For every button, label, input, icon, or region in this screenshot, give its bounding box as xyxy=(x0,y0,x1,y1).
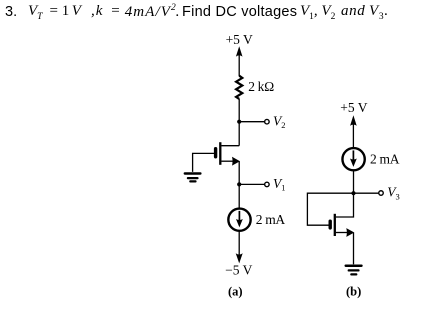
current source I1 2 mA xyxy=(228,209,250,231)
terminal V1 open circle xyxy=(265,182,270,187)
svg-text:V1: V1 xyxy=(273,176,286,193)
transistor Q2 drain lead xyxy=(336,193,354,217)
node V1 junction dot xyxy=(237,182,241,186)
svg-text:−5 V: −5 V xyxy=(225,262,252,277)
current source I2 2 mA xyxy=(342,148,364,170)
wire feedback loop node V3 to Q2 gate xyxy=(307,193,353,225)
wire Q1 gate to ground xyxy=(193,153,214,172)
wire node V2 to terminal xyxy=(239,121,264,123)
node V2 junction dot xyxy=(237,120,241,124)
transistor Q1 source lead with arrow xyxy=(221,157,240,166)
wire current source to -5V arrow xyxy=(238,231,240,255)
transistor Q2 source lead with arrow xyxy=(336,228,354,237)
+5V supply arrow (a) xyxy=(236,46,243,76)
node V3 junction dot xyxy=(351,191,355,195)
title line xyxy=(5,4,17,20)
wire current source to node V3 xyxy=(353,170,355,193)
wire Q2 source to ground xyxy=(353,233,355,265)
wire node V1 to current source xyxy=(238,184,240,208)
transistor Q1 gate bar xyxy=(214,149,217,157)
svg-text:V2: V2 xyxy=(273,113,286,130)
wire Q1 source down to node V1 xyxy=(238,161,240,184)
wire resistor to drain corner xyxy=(238,99,240,146)
transistor Q1 drain lead xyxy=(221,145,239,147)
transistor Q2 gate bar xyxy=(329,221,332,228)
svg-text:+5 V: +5 V xyxy=(226,32,253,47)
transistor Q1 channel xyxy=(219,142,221,165)
resistor R1 2 kOhm xyxy=(236,76,242,99)
transistor Q2 channel xyxy=(334,214,336,236)
ground symbol (b) xyxy=(345,264,363,275)
svg-text:(a): (a) xyxy=(228,285,243,299)
svg-text:2 kΩ: 2 kΩ xyxy=(248,79,274,94)
terminal V3 open circle xyxy=(379,191,384,196)
terminal V2 open circle xyxy=(265,119,270,124)
wire node V1 to terminal xyxy=(239,183,264,185)
svg-text:2 mA: 2 mA xyxy=(256,212,286,227)
svg-text:V3: V3 xyxy=(387,185,400,202)
wire node V3 to terminal xyxy=(354,192,379,194)
svg-text:+5 V: +5 V xyxy=(340,100,367,115)
ground symbol (a) xyxy=(184,172,202,182)
svg-text:2 mA: 2 mA xyxy=(370,152,400,167)
-5V supply arrow (a) xyxy=(236,253,243,263)
svg-text:(b): (b) xyxy=(346,285,361,299)
+5V supply arrow (b) xyxy=(350,115,357,148)
